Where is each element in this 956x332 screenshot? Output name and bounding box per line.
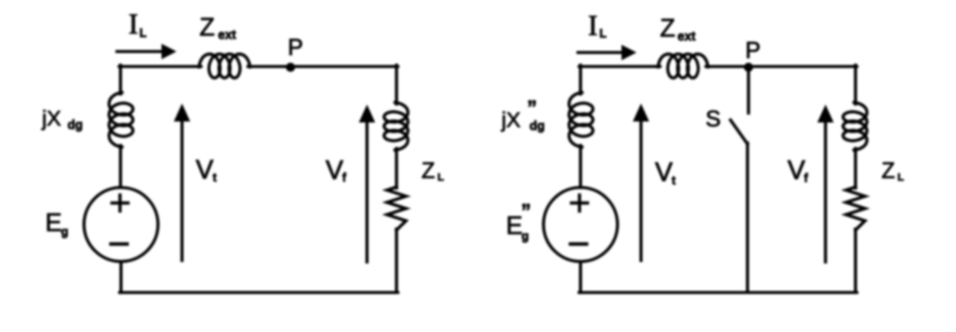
svg-text:I: I — [129, 9, 139, 41]
svg-text:Z: Z — [882, 158, 895, 183]
svg-text:g: g — [522, 229, 529, 243]
svg-text:V: V — [655, 157, 673, 187]
svg-text:L: L — [600, 29, 607, 41]
svg-text:jX: jX — [41, 106, 61, 130]
svg-text:”: ” — [527, 98, 537, 120]
svg-text:dg: dg — [530, 119, 545, 133]
svg-text:L: L — [438, 172, 445, 184]
svg-text:g: g — [61, 225, 68, 239]
svg-text:Z: Z — [660, 15, 675, 43]
svg-text:L: L — [140, 28, 147, 40]
svg-text:ext: ext — [218, 28, 237, 42]
svg-text:I: I — [588, 10, 598, 42]
svg-text:dg: dg — [68, 118, 83, 132]
svg-text:Z: Z — [422, 158, 435, 183]
svg-text:V: V — [196, 155, 214, 185]
svg-text:t: t — [672, 175, 676, 187]
svg-text:Z: Z — [200, 13, 215, 41]
svg-text:jX: jX — [501, 108, 521, 132]
svg-text:P: P — [745, 37, 760, 63]
svg-text:ext: ext — [678, 30, 697, 44]
svg-text:P: P — [288, 34, 303, 60]
svg-text:S: S — [706, 106, 721, 132]
svg-text:V: V — [788, 155, 806, 185]
svg-text:f: f — [342, 173, 346, 185]
svg-text:L: L — [898, 171, 905, 183]
svg-text:”: ” — [521, 201, 531, 223]
svg-text:t: t — [213, 173, 217, 185]
svg-text:V: V — [326, 155, 344, 185]
svg-text:E: E — [45, 209, 62, 237]
svg-text:f: f — [804, 173, 808, 185]
